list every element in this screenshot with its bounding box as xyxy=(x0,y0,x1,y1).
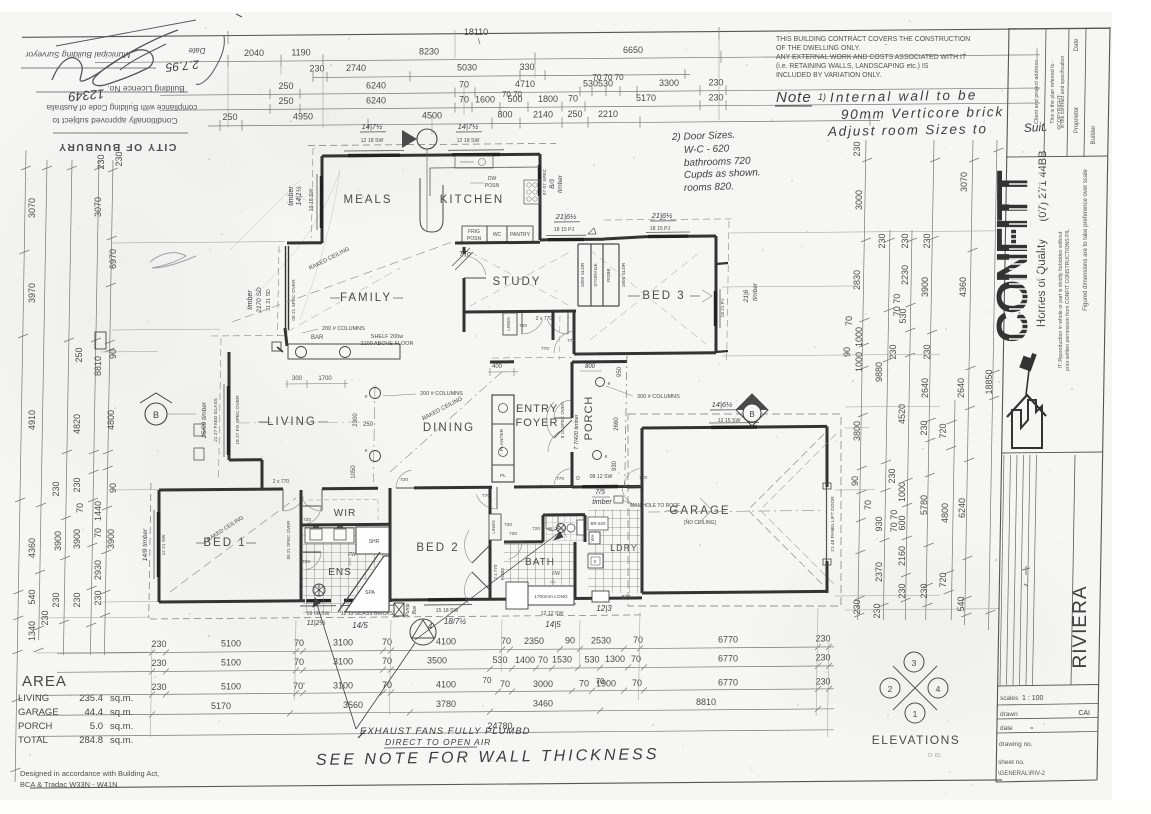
svg-text:5170: 5170 xyxy=(211,701,231,711)
svg-text:250: 250 xyxy=(278,96,293,106)
window living west 21 27 FXD GLASS xyxy=(227,386,230,455)
svg-text:5030: 5030 xyxy=(457,62,477,72)
svg-text:DW: DW xyxy=(488,176,497,182)
svg-text:ENS: ENS xyxy=(328,567,352,578)
svg-text:230: 230 xyxy=(309,64,324,74)
svg-text:720: 720 xyxy=(303,517,311,523)
svg-text:3300: 3300 xyxy=(659,78,679,88)
svg-text:07 07 SPEC: 07 07 SPEC xyxy=(542,168,548,195)
wall: bed3 east xyxy=(715,236,718,353)
sill boxes living west xyxy=(194,424,204,436)
window stub walls bed3 east outside xyxy=(716,263,728,264)
window symbol B circle west of living xyxy=(145,403,167,425)
svg-text:B: B xyxy=(749,410,754,419)
svg-text:770: 770 xyxy=(541,346,549,352)
garage roof chevrons dashed xyxy=(748,434,824,586)
hall centre dashes xyxy=(558,316,561,360)
top dimension chain row: 250 6240 70 1600 500 1800 70 5170 230 xyxy=(160,103,1040,110)
svg-text:Box: Box xyxy=(412,605,418,614)
logo stencil stripe overlay xyxy=(1009,168,1041,170)
svg-text:e: e xyxy=(605,454,608,460)
door hall-rear xyxy=(554,486,572,488)
garage door jamb marks xyxy=(823,483,831,489)
svg-text:230: 230 xyxy=(888,344,898,359)
svg-text:200 # COLUMNS: 200 # COLUMNS xyxy=(322,326,365,332)
svg-text:14/5: 14/5 xyxy=(352,621,368,630)
svg-text:230: 230 xyxy=(51,481,61,496)
svg-text:3900: 3900 xyxy=(920,277,930,297)
bath floor tiles xyxy=(504,543,575,585)
svg-text:1300: 1300 xyxy=(605,654,625,664)
svg-text:FW: FW xyxy=(552,571,561,577)
svg-text:70 70: 70 70 xyxy=(502,90,523,99)
svg-text:4: 4 xyxy=(936,684,941,694)
svg-text:FW: FW xyxy=(348,552,357,558)
right chain tick marks xyxy=(862,158,872,162)
wc toilet xyxy=(577,520,585,535)
svg-text:14|6½: 14|6½ xyxy=(712,400,733,409)
svg-text:230: 230 xyxy=(72,477,82,492)
svg-text:STORAGE: STORAGE xyxy=(593,263,599,286)
svg-text:timber: timber xyxy=(592,499,612,506)
broom cupboard BR 520 xyxy=(588,517,608,530)
wall: bed2 east xyxy=(489,487,492,514)
svg-text:70: 70 xyxy=(483,676,492,685)
svg-text:14|1½: 14|1½ xyxy=(295,186,303,205)
svg-text:Pump: Pump xyxy=(405,603,411,616)
svg-text:4910: 4910 xyxy=(27,410,37,430)
address write-in ruled lines xyxy=(1000,455,1004,685)
svg-text:70: 70 xyxy=(93,528,103,538)
svg-text:70: 70 xyxy=(632,678,642,688)
svg-text:1: 1 xyxy=(913,709,918,719)
window 12 15 SW garage north xyxy=(711,425,757,429)
svg-text:BR 520: BR 520 xyxy=(590,521,606,526)
svg-text:WC: WC xyxy=(493,232,502,238)
svg-text:B: B xyxy=(153,410,159,420)
svg-text:21 27 FXED GLASS: 21 27 FXED GLASS xyxy=(213,398,219,441)
hot water WH xyxy=(589,532,600,544)
wall: bed3 south xyxy=(574,353,716,354)
svg-text:1800 SLDR: 1800 SLDR xyxy=(580,262,586,287)
svg-text:BED 3: BED 3 xyxy=(642,290,685,302)
svg-text:timber: timber xyxy=(247,290,254,310)
svg-text:21|6: 21|6 xyxy=(743,289,750,303)
svg-text:70: 70 xyxy=(75,503,85,513)
svg-text:sq.m.: sq.m. xyxy=(110,721,133,732)
svg-text:1190: 1190 xyxy=(291,48,310,58)
svg-text:scales: scales xyxy=(1000,695,1019,702)
svg-text:230: 230 xyxy=(852,599,862,614)
svg-text:230: 230 xyxy=(708,77,723,87)
svg-text:PL: PL xyxy=(500,473,506,479)
svg-text:230: 230 xyxy=(151,658,166,668)
svg-text:800: 800 xyxy=(585,364,596,370)
wc nook walls xyxy=(542,515,545,542)
svg-text:2640: 2640 xyxy=(920,378,930,398)
wir door xyxy=(303,505,321,507)
svg-text:230: 230 xyxy=(919,420,929,435)
svg-text:4360: 4360 xyxy=(27,538,37,558)
svg-text:3070: 3070 xyxy=(27,198,37,218)
svg-text:330: 330 xyxy=(519,62,534,72)
svg-text:230: 230 xyxy=(96,154,106,169)
svg-text:WIR: WIR xyxy=(334,508,356,519)
svg-text:200 # COLUMNS: 200 # COLUMNS xyxy=(420,391,463,397)
wall: bed1-wir partition xyxy=(300,490,303,602)
entry double doors xyxy=(554,420,572,438)
linen cupboard at study south xyxy=(503,313,517,335)
svg-text:230: 230 xyxy=(815,652,830,662)
exhaust note leader V lines xyxy=(315,598,356,729)
storage robe partition walls xyxy=(577,244,579,306)
porch column north xyxy=(596,378,605,387)
svg-text:Conditionally approved subject: Conditionally approved subject to xyxy=(52,116,177,126)
svg-text:rooms 820.: rooms 820. xyxy=(684,181,734,194)
svg-text:ROBE: ROBE xyxy=(606,268,612,282)
sill box family sw corner xyxy=(272,342,281,351)
svg-text:W-C - 620: W-C - 620 xyxy=(684,143,730,156)
svg-text:230: 230 xyxy=(51,592,61,607)
wall: hall west (dining side) xyxy=(463,312,466,332)
door bed2 xyxy=(496,487,498,509)
svg-text:5.0: 5.0 xyxy=(90,721,103,732)
svg-text:POSN: POSN xyxy=(467,236,482,242)
svg-text:2170 SD: 2170 SD xyxy=(256,287,263,314)
vertical leader lines from top chains down to plan xyxy=(227,55,229,128)
client box inner vertical dividers xyxy=(1044,29,1046,157)
svg-text:FRIG: FRIG xyxy=(468,229,480,235)
leader from symbol to wc fan xyxy=(415,532,560,640)
svg-text:8230: 8230 xyxy=(419,47,439,57)
svg-text:4360: 4360 xyxy=(958,277,968,297)
bottom chain row 1 xyxy=(57,647,834,653)
svg-text:PORCH: PORCH xyxy=(18,721,52,732)
bath shower corner xyxy=(506,582,528,609)
svg-text:6770: 6770 xyxy=(718,653,738,663)
svg-text:2160: 2160 xyxy=(897,546,907,566)
door bed3 southwest xyxy=(576,352,598,354)
svg-text:D: D xyxy=(576,476,580,482)
svg-text:12|3: 12|3 xyxy=(596,604,612,613)
svg-text:(07) 271 44BB: (07) 271 44BB xyxy=(1037,151,1049,222)
svg-text:OF THE DWELLING ONLY.: OF THE DWELLING ONLY. xyxy=(776,45,860,52)
svg-text:230: 230 xyxy=(922,233,932,248)
top dimension chain row: 250 6240 70 4710 530530 3300 230 xyxy=(160,88,1040,95)
window 08 12 SW porch south xyxy=(582,485,618,489)
svg-text:70: 70 xyxy=(568,94,578,104)
faint pencil scrawl left-middle xyxy=(150,253,196,268)
wall: garage north xyxy=(642,426,827,428)
ens door xyxy=(303,551,321,553)
svg-text:70 70 70: 70 70 70 xyxy=(592,73,624,82)
svg-text:3500: 3500 xyxy=(427,656,447,666)
raked ceiling dash bed1 xyxy=(170,498,296,592)
svg-text:[NO CEILING]: [NO CEILING] xyxy=(684,520,716,526)
window wall: family west (2170 SD) xyxy=(285,246,287,330)
wall: porch west xyxy=(571,362,574,418)
sheet bottom border line xyxy=(30,780,1002,788)
door to wir-hall xyxy=(396,487,414,489)
shower ens xyxy=(356,527,389,554)
svg-text:Date: Date xyxy=(1074,38,1080,51)
svg-text:date: date xyxy=(1000,725,1013,732)
svg-text:Designed in accordance with Bu: Designed in accordance with Building Act… xyxy=(20,769,159,778)
svg-text:530: 530 xyxy=(584,654,599,664)
svg-text:4100: 4100 xyxy=(436,637,456,647)
svg-text:230: 230 xyxy=(887,468,897,483)
door study west xyxy=(464,277,486,279)
svg-text:530: 530 xyxy=(492,655,507,665)
svg-text:7/5: 7/5 xyxy=(595,489,605,496)
raked ceiling dash dining xyxy=(390,370,504,472)
ldry door arc xyxy=(622,488,640,506)
svg-text:3800: 3800 xyxy=(852,421,862,441)
svg-text:sheet no.: sheet no. xyxy=(998,759,1025,766)
svg-text:IT: Reproduction in whole: IT: Reproduction in whole or part is str… xyxy=(1058,231,1064,369)
svg-text:2 x 770: 2 x 770 xyxy=(273,479,290,485)
svg-text:18/7½: 18/7½ xyxy=(444,617,467,626)
window 09 06 SW xyxy=(306,599,331,603)
svg-text:25/09 timber: 25/09 timber xyxy=(201,401,208,439)
svg-text:PANTRY: PANTRY xyxy=(510,232,530,238)
svg-text:2300: 2300 xyxy=(353,413,359,427)
svg-text:5100: 5100 xyxy=(221,638,241,648)
window symbol B diamond above garage xyxy=(736,394,768,426)
CONFIT house logo icon xyxy=(1012,400,1042,448)
svg-text:(i.e. RETAINING WALLS, LAND: (i.e. RETAINING WALLS, LANDSCAPING etc.)… xyxy=(776,63,929,70)
svg-text:250: 250 xyxy=(278,81,293,91)
svg-text:2660: 2660 xyxy=(614,417,620,431)
wall: bed3 north east part xyxy=(688,235,716,238)
wc vanity xyxy=(546,515,558,531)
svg-text:4820: 4820 xyxy=(72,414,82,434)
ens floor tiles xyxy=(303,527,388,613)
svg-text:6240: 6240 xyxy=(366,80,386,90)
svg-text:5100: 5100 xyxy=(221,681,241,691)
svg-text:LIVING: LIVING xyxy=(267,416,317,428)
raked ceiling dash family xyxy=(232,242,452,322)
svg-text:sq.m.: sq.m. xyxy=(110,735,133,746)
svg-text:LINEN: LINEN xyxy=(506,317,511,330)
svg-text:08 12 SW: 08 12 SW xyxy=(590,474,613,480)
svg-text:SPA: SPA xyxy=(365,590,375,596)
svg-text:5780: 5780 xyxy=(919,495,929,515)
svg-text:3000: 3000 xyxy=(533,679,553,689)
window sill lines meals north outside xyxy=(344,150,404,153)
svg-text:1700mm LONG: 1700mm LONG xyxy=(534,594,568,600)
top dimension chain row: 230 2740 5030 330 xyxy=(313,74,690,77)
svg-text:400: 400 xyxy=(492,364,503,370)
svg-text:CONFITT: CONFITT xyxy=(988,170,1037,343)
eave dashed outline north wing xyxy=(308,143,556,145)
svg-text:9880: 9880 xyxy=(874,362,884,382)
svg-text:1440: 1440 xyxy=(93,501,103,521)
svg-text:e: e xyxy=(365,448,368,454)
svg-text:230: 230 xyxy=(897,583,907,598)
svg-text:e: e xyxy=(365,394,368,400)
svg-text:720: 720 xyxy=(504,522,512,528)
svg-text:CITY OF BUNBURY: CITY OF BUNBURY xyxy=(58,141,177,153)
svg-text:3070: 3070 xyxy=(93,197,103,217)
eave dashed outline bed3 wing xyxy=(604,219,731,220)
svg-text:6240: 6240 xyxy=(366,95,386,105)
svg-text:GARAGE: GARAGE xyxy=(18,707,59,718)
svg-text:1700: 1700 xyxy=(318,376,332,382)
window 18 21 PJ bed3 east xyxy=(714,291,717,326)
svg-text:230: 230 xyxy=(151,682,166,692)
svg-text:This is the plan referred to: This is the plan referred to - xyxy=(1050,60,1056,124)
svg-text:230: 230 xyxy=(900,233,910,248)
window 18 15 PJ bed3 north xyxy=(648,234,688,238)
svg-text:1800 SLDR: 1800 SLDR xyxy=(621,262,627,287)
svg-text:FAMILY: FAMILY xyxy=(340,292,392,304)
wall: bed3 west xyxy=(573,310,576,354)
svg-text:BED 2: BED 2 xyxy=(416,542,459,554)
svg-text:2350: 2350 xyxy=(524,636,544,646)
svg-text:820: 820 xyxy=(621,595,630,601)
column circle at bar west xyxy=(296,347,307,358)
dashed line entry roof xyxy=(492,356,572,359)
svg-text:5170: 5170 xyxy=(636,93,656,103)
svg-text:LDRY: LDRY xyxy=(610,543,638,553)
wir shelf dashes xyxy=(308,498,378,501)
svg-text:770: 770 xyxy=(567,338,575,344)
svg-text:720: 720 xyxy=(400,477,408,483)
window symbol A circle above kitchen xyxy=(417,129,437,149)
svg-text:14/9 timber: 14/9 timber xyxy=(142,528,149,561)
raked ceiling dashes bed3 xyxy=(590,250,706,344)
svg-text:12 15 SW: 12 15 SW xyxy=(718,418,741,424)
garage eave dashed outline xyxy=(628,414,841,606)
svg-text:90: 90 xyxy=(850,476,860,486)
svg-text:4520: 4520 xyxy=(897,404,907,424)
svg-text:timber: timber xyxy=(288,186,295,206)
bottom chain row 3 xyxy=(37,689,834,696)
ens exhaust fan scribble xyxy=(313,584,325,596)
svg-text:PLANTER: PLANTER xyxy=(499,428,505,451)
svg-text:2210: 2210 xyxy=(598,109,618,119)
door jamb marker hall north xyxy=(584,238,604,241)
ldry floor tiles xyxy=(588,509,642,593)
svg-text:1400: 1400 xyxy=(515,655,535,665)
svg-text:1600: 1600 xyxy=(475,94,495,104)
svg-text:250: 250 xyxy=(363,422,374,428)
svg-text:930: 930 xyxy=(874,516,884,531)
wall: wir-ens partition xyxy=(301,523,390,527)
svg-text:drawn: drawn xyxy=(1000,711,1018,718)
svg-text:800: 800 xyxy=(497,110,512,120)
svg-text:720: 720 xyxy=(532,526,540,532)
svg-text:prior written permission fr: prior written permission from CONFIT CON… xyxy=(1065,229,1071,371)
svg-text:720: 720 xyxy=(509,531,517,537)
svg-text:2) Door Sizes.: 2) Door Sizes. xyxy=(671,130,736,143)
svg-text:720: 720 xyxy=(938,572,948,587)
svg-text:70: 70 xyxy=(538,655,548,665)
column centreline dining xyxy=(373,385,375,482)
svg-text:STUDY: STUDY xyxy=(493,276,542,288)
svg-text:2640: 2640 xyxy=(956,378,966,398)
svg-text:5100: 5100 xyxy=(221,657,241,667)
svg-text:4710: 4710 xyxy=(515,79,535,89)
svg-text:4800: 4800 xyxy=(106,410,116,430)
svg-text:18 15 PJ: 18 15 PJ xyxy=(650,226,671,232)
door ldry xyxy=(624,485,642,487)
svg-text:PORCH: PORCH xyxy=(583,396,595,441)
svg-text:70: 70 xyxy=(596,677,605,686)
svg-text:2370: 2370 xyxy=(874,562,884,582)
wall: south wing north (hall wall) xyxy=(159,489,283,490)
svg-text:LIVING: LIVING xyxy=(18,693,49,704)
wall: garage west xyxy=(641,428,644,593)
svg-text:2100 ABOVE FLOOR: 2100 ABOVE FLOOR xyxy=(361,341,414,347)
wall: living sw jog xyxy=(229,458,262,461)
svg-text:Building Licence No.: Building Licence No. xyxy=(107,84,185,94)
svg-text:Proprietor: Proprietor xyxy=(1074,107,1080,133)
svg-text:90: 90 xyxy=(842,347,852,357)
window 12 18 SW meals west xyxy=(320,176,323,228)
svg-text:1000: 1000 xyxy=(897,482,907,502)
svg-text:T 7/420 timber: T 7/420 timber xyxy=(574,413,580,450)
svg-text:DINING: DINING xyxy=(423,422,475,434)
wall: bed3 north west part xyxy=(604,237,648,239)
svg-text:720: 720 xyxy=(938,423,948,438)
svg-text:1 : 100: 1 : 100 xyxy=(1022,695,1044,702)
svg-text:4800: 4800 xyxy=(940,503,950,523)
svg-text:70: 70 xyxy=(863,500,873,510)
vertical leaders bottom chains xyxy=(150,645,152,737)
svg-text:©COPYRIGHT:: ©COPYRIGHT: xyxy=(1056,94,1063,130)
svg-text:12 18 SW: 12 18 SW xyxy=(457,138,480,144)
left dimension chain lines xyxy=(15,150,26,782)
svg-text:timber: timber xyxy=(557,174,564,193)
svg-text:3900: 3900 xyxy=(72,529,82,549)
svg-text:09 21 SPEC OVER: 09 21 SPEC OVER xyxy=(291,279,297,321)
kitchen sink under window xyxy=(455,156,493,168)
kitchen island bench U shape xyxy=(420,178,443,232)
wall: living west xyxy=(228,352,231,460)
bed2 robe doors xyxy=(472,545,490,563)
svg-text:230: 230 xyxy=(72,592,82,607)
column circle dining north xyxy=(370,388,381,399)
svg-text:Note: Note xyxy=(776,89,812,106)
washing machine position xyxy=(592,591,609,602)
svg-text:ELEVATIONS: ELEVATIONS xyxy=(872,733,961,747)
horizontal leader lines from left chains to plan xyxy=(112,242,285,243)
raked ceiling dashes study xyxy=(470,252,570,306)
svg-text:3000: 3000 xyxy=(854,190,864,210)
bar counter family south xyxy=(288,344,400,359)
svg-text:540: 540 xyxy=(27,589,37,604)
svg-text:21 48 PANEL LIFT DOOR: 21 48 PANEL LIFT DOOR xyxy=(830,496,836,552)
top dimension chain row: 250 4950 4500 800 2140 250 2210 xyxy=(208,120,880,126)
kitchen bench counters xyxy=(430,167,540,168)
svg-text:3900: 3900 xyxy=(53,531,63,551)
svg-text:1800: 1800 xyxy=(538,94,558,104)
left chain tick marks xyxy=(21,166,31,170)
svg-text:Client and project address: Client and project address xyxy=(1034,60,1040,124)
svg-text:BAR: BAR xyxy=(311,335,324,341)
bottom chain row 4 xyxy=(37,709,834,716)
svg-text:CAI: CAI xyxy=(1078,710,1090,717)
wall: bath east / ldry west xyxy=(584,515,587,542)
wall: south wing south xyxy=(159,601,305,602)
svg-text:Date: Date xyxy=(188,46,205,55)
svg-text:31 21 SD: 31 21 SD xyxy=(266,289,272,311)
svg-text:2230: 2230 xyxy=(900,265,910,285)
title block outer borders xyxy=(996,28,1009,782)
svg-text:70: 70 xyxy=(579,678,589,688)
